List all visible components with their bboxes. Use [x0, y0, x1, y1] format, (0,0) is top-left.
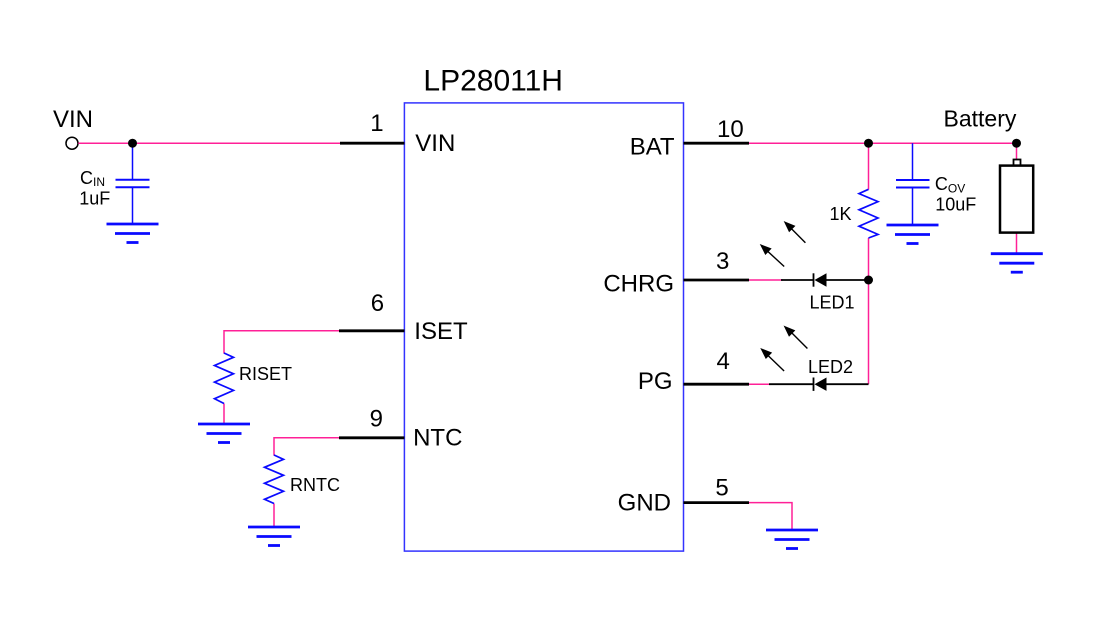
wire battery bottom to ground — [1016, 233, 1018, 253]
battery BT1 body — [1000, 166, 1033, 233]
junction node at battery — [1012, 139, 1021, 148]
svg-text:RNTC: RNTC — [290, 475, 340, 495]
svg-text:LED1: LED1 — [810, 292, 855, 312]
svg-text:5: 5 — [715, 475, 728, 502]
LED2 arrows — [762, 327, 808, 371]
svg-text:CHRG: CHRG — [603, 270, 674, 297]
wire 1K top — [868, 143, 870, 189]
LED1 triangle — [815, 273, 827, 286]
svg-text:1: 1 — [370, 110, 383, 137]
capacitor COV stem bottom — [912, 188, 914, 226]
wire ISET to RISET — [224, 331, 339, 354]
svg-text:VIN: VIN — [53, 106, 93, 133]
ground (COV) — [887, 225, 939, 244]
svg-text:NTC: NTC — [413, 425, 462, 452]
svg-text:PG: PG — [638, 368, 673, 395]
resistor R1 1K — [859, 189, 878, 238]
pin stub NTC pin9 — [339, 436, 404, 439]
junction node at CIN — [128, 139, 137, 148]
svg-text:10uF: 10uF — [935, 194, 976, 214]
wire PG to LED2 anode side (black) — [769, 383, 814, 385]
LED1 diode — [781, 273, 869, 286]
pin stub CHRG pin3 — [684, 279, 750, 282]
pin stub GND pin5 — [684, 501, 750, 504]
svg-text:GND: GND — [618, 490, 671, 517]
svg-text:1K: 1K — [830, 204, 852, 224]
wire PG pin4 — [749, 383, 771, 385]
wire RISET to ground — [223, 404, 225, 425]
LED1 cathode bar — [813, 273, 815, 286]
wire CHRG node down to LED2 — [868, 280, 870, 384]
svg-text:VIN: VIN — [415, 130, 455, 157]
wire LED1 to node — [827, 279, 869, 281]
svg-text:4: 4 — [717, 348, 730, 375]
junction node at LED1/1K — [864, 276, 873, 285]
wire GND pin5 to ground — [749, 503, 792, 530]
svg-text:ISET: ISET — [414, 318, 468, 345]
pin stub ISET pin6 — [339, 329, 404, 332]
svg-text:6: 6 — [371, 290, 384, 317]
svg-text:RISET: RISET — [239, 364, 292, 384]
svg-text:10: 10 — [717, 116, 744, 143]
ground (GND pin) — [766, 530, 818, 549]
terminal VIN (open circle) — [66, 137, 78, 149]
wire 1K bottom to CHRG node — [868, 238, 870, 280]
wire CHRG to LED1 anode side (black) — [781, 279, 814, 281]
resistor RNTC — [265, 455, 284, 504]
ground (CIN) — [107, 224, 159, 243]
wire NTC to RNTC — [274, 438, 339, 456]
svg-text:BAT: BAT — [630, 134, 675, 161]
wire CHRG pin3 — [749, 279, 783, 281]
svg-text:1uF: 1uF — [79, 189, 110, 209]
IC U1 LP28011H body — [404, 103, 683, 551]
capacitor CIN stem bottom — [132, 187, 134, 224]
ground (RISET) — [198, 424, 250, 443]
pin stub VIN pin1 — [340, 142, 404, 145]
battery BT1 terminal nub — [1014, 160, 1021, 166]
pin stub PG pin4 — [684, 383, 750, 386]
wire battery top — [1016, 143, 1018, 159]
svg-text:9: 9 — [370, 406, 383, 433]
junction node at 1K/BAT — [864, 139, 873, 148]
capacitor COV stem top — [912, 143, 914, 180]
svg-text:3: 3 — [716, 248, 729, 275]
ground (RNTC) — [248, 527, 300, 546]
svg-text:LP28011H: LP28011H — [423, 65, 563, 98]
capacitor CIN plates — [116, 179, 150, 181]
pin stub BAT pin10 — [684, 142, 750, 145]
LED2 triangle — [815, 378, 827, 391]
resistor RISET — [215, 353, 234, 404]
wire VIN terminal to pin1 — [78, 142, 340, 144]
LED2 cathode bar — [813, 378, 815, 391]
wire RNTC to ground — [273, 504, 275, 528]
wire LED2 to node — [827, 383, 869, 385]
LED1 arrows — [761, 222, 805, 266]
svg-text:Battery: Battery — [944, 106, 1017, 132]
ground (battery) — [991, 254, 1043, 273]
capacitor CIN stem top — [132, 143, 134, 180]
capacitor COV plates — [896, 179, 930, 181]
LED2 diode — [769, 378, 869, 391]
svg-text:LED2: LED2 — [808, 357, 853, 377]
wire BAT pin10 to battery — [749, 142, 1017, 144]
